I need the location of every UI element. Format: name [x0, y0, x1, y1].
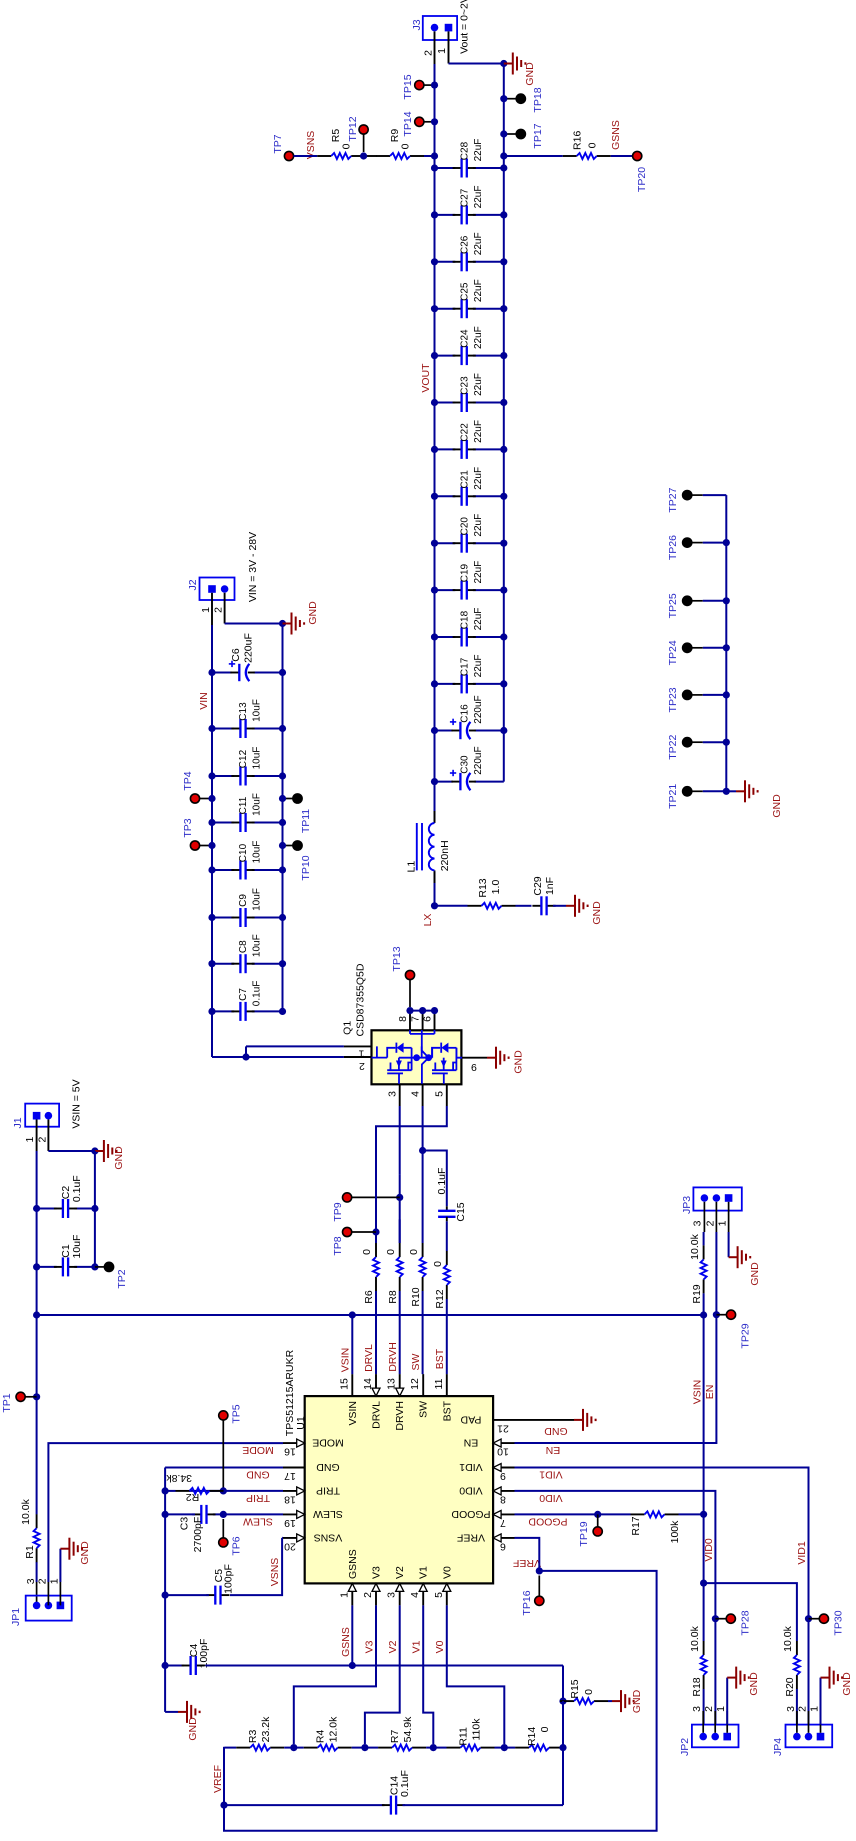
wire V0 net from pin5 [447, 1605, 505, 1744]
node VSIN rail to distribution [33, 1311, 40, 1318]
svg-text:C9: C9 [238, 894, 249, 907]
node TP29 junction [713, 1311, 720, 1318]
svg-text:PAD: PAD [460, 1413, 481, 1425]
resistor R18 (10.0k) [703, 1675, 705, 1689]
resistor R17 (100k) [631, 1513, 645, 1515]
testpoint TP23 [683, 690, 692, 699]
svg-text:VSNS: VSNS [269, 1558, 281, 1587]
node VID pullup branch junction [700, 1580, 707, 1587]
testpoint TP29 [716, 1314, 726, 1316]
wire net VSIN main rail [36, 1562, 38, 1582]
testpoint TP19 [597, 1514, 599, 1526]
svg-text:VIN = 3V - 28V: VIN = 3V - 28V [247, 532, 259, 602]
svg-text:V0: V0 [434, 1640, 446, 1653]
svg-text:L1: L1 [406, 861, 418, 873]
wire V2 net from pin3 [365, 1605, 400, 1744]
wire VOUT rail (net VOUT) [434, 64, 436, 822]
svg-text:3: 3 [25, 1578, 37, 1584]
node TP19 junction [594, 1511, 601, 1518]
wire net BST with C15 bootstrap [423, 1151, 447, 1207]
resistor R9 (0 ohm) [376, 155, 390, 157]
svg-text:5: 5 [433, 1592, 445, 1598]
svg-text:TP11: TP11 [300, 809, 312, 833]
capacitor C17 (22uF) [435, 683, 456, 685]
capacitor C18 (22uF) [435, 636, 456, 638]
svg-text:VSIN: VSIN [347, 1401, 359, 1426]
svg-text:TPS51215ARUKR: TPS51215ARUKR [284, 1349, 296, 1436]
svg-text:1: 1 [717, 1220, 729, 1226]
svg-text:3: 3 [692, 1220, 704, 1226]
testpoint TP30 [809, 1618, 820, 1620]
testpoint TP22 [683, 738, 692, 747]
svg-text:10.0k: 10.0k [689, 1233, 701, 1259]
transistor Q1 internal MOSFETs [372, 1030, 463, 1084]
node PGOOD pullup junction [700, 1511, 707, 1518]
wire GND rail of output capacitor bank [503, 64, 505, 782]
capacitor C11 (10uF) [212, 822, 234, 824]
svg-text:0: 0 [399, 143, 411, 149]
svg-text:PGOOD: PGOOD [528, 1516, 568, 1528]
node VSNS mid junction [364, 155, 377, 157]
resistor R10 (0 ohm) [422, 1277, 424, 1291]
resistor R5 (0 ohm) [317, 155, 331, 157]
testpoint TP11 [293, 794, 302, 803]
capacitor C19 (22uF) [435, 589, 456, 591]
svg-text:TP18: TP18 [532, 87, 544, 112]
svg-text:VOUT: VOUT [420, 363, 432, 393]
wire JP1 pin1 to GND [59, 1549, 61, 1582]
testpoint TP1 [33, 1393, 40, 1400]
svg-text:DRVH: DRVH [394, 1401, 406, 1431]
svg-text:MODE: MODE [312, 1437, 344, 1449]
svg-text:V0: V0 [441, 1566, 453, 1579]
testpoint TP16 [538, 1576, 540, 1597]
resistor R15 (0 ohm) [563, 1700, 565, 1702]
svg-text:SLEW: SLEW [313, 1508, 343, 1520]
svg-text:C27: C27 [460, 188, 471, 207]
svg-text:22uF: 22uF [473, 655, 484, 678]
ground at JP1 [60, 1548, 69, 1550]
svg-text:J1: J1 [12, 1117, 24, 1128]
svg-text:TP15: TP15 [402, 74, 414, 99]
wire VOUT rail lower segment to LX node [434, 872, 436, 906]
wire U1 GND pin17 to rail [165, 1467, 283, 1469]
svg-text:MODE: MODE [242, 1444, 274, 1456]
svg-text:TP28: TP28 [740, 1610, 752, 1635]
wire PAD pin21 to ground [515, 1419, 575, 1421]
wire TP5 to TRIP [222, 1420, 224, 1490]
ground at Q1 pad [487, 1057, 496, 1059]
wire VSIN distribution vertical [37, 1314, 704, 1316]
svg-text:TP22: TP22 [667, 734, 679, 759]
wire Q1 switch-node pins 8,7,6 [409, 1011, 411, 1031]
capacitor C7 (0.1uF) [212, 1010, 234, 1012]
wire net EN (JP3 pin2 to U1 pin10) [515, 1232, 717, 1443]
svg-text:GND: GND [79, 1541, 91, 1565]
svg-text:V1: V1 [411, 1640, 423, 1653]
svg-text:TP12: TP12 [347, 116, 359, 141]
svg-text:DRVL: DRVL [363, 1344, 375, 1372]
svg-text:R4: R4 [315, 1730, 327, 1744]
svg-text:LX: LX [422, 914, 434, 927]
wire VREF loop [515, 1538, 540, 1571]
svg-text:CSD87355Q5D: CSD87355Q5D [355, 963, 367, 1036]
wire R9 to VOUT rail [424, 155, 435, 157]
ground at snubber [566, 905, 575, 907]
ground at JP3 [729, 1256, 738, 1258]
svg-text:VREF: VREF [457, 1531, 485, 1543]
svg-text:0: 0 [583, 1689, 595, 1695]
ground at J3 [504, 63, 513, 65]
wire TP7 to R5 [294, 155, 318, 157]
svg-text:2: 2 [362, 1592, 374, 1598]
capacitor C6 (220uF polarized) [212, 672, 232, 674]
svg-text:JP1: JP1 [10, 1608, 22, 1626]
U1 left edge pins 1-5 GSNS V3 V2 V1 V0 [351, 1583, 353, 1605]
svg-text:C22: C22 [460, 423, 471, 442]
node J1 GND junction [91, 1147, 98, 1154]
svg-text:GSNS: GSNS [347, 1549, 359, 1579]
svg-text:10: 10 [497, 1446, 509, 1458]
svg-text:VID1: VID1 [796, 1541, 808, 1565]
wire net VID0 (U1 pin8 to JP2) [515, 1491, 716, 1725]
svg-text:R8: R8 [387, 1290, 399, 1304]
testpoint TP8 [352, 1231, 376, 1233]
capacitor C24 (22uF) [435, 355, 456, 357]
svg-text:TRIP: TRIP [246, 1492, 270, 1504]
svg-text:R7: R7 [389, 1730, 401, 1744]
resistor R12 (0 ohm) [446, 1285, 448, 1299]
resistor R3 (23.2k) [225, 1747, 237, 1749]
net GSNS sense chain: R16, TP20 [500, 152, 507, 159]
svg-text:SLEW: SLEW [243, 1516, 273, 1528]
capacitor C30 (220uF polarized) [435, 781, 453, 783]
ground at R15 [612, 1700, 621, 1702]
svg-text:Q1: Q1 [341, 1021, 353, 1035]
node TP28 junction [712, 1615, 719, 1622]
svg-text:C29: C29 [532, 876, 544, 895]
capacitor C25 (22uF) [435, 308, 456, 310]
svg-text:V2: V2 [387, 1640, 399, 1653]
capacitor C16 (220uF polarized) [435, 730, 453, 732]
svg-text:18: 18 [284, 1493, 296, 1505]
svg-text:TP26: TP26 [667, 535, 679, 560]
svg-text:1: 1 [48, 1578, 60, 1584]
svg-text:VID1: VID1 [459, 1461, 483, 1473]
wire chain bottom to R15/GSNS [562, 1701, 564, 1805]
svg-text:100pF: 100pF [223, 1564, 235, 1594]
svg-text:R2: R2 [186, 1491, 200, 1503]
svg-text:TP3: TP3 [182, 818, 194, 837]
wire VIN rail corner down to Q1 [212, 1056, 246, 1058]
svg-text:10uF: 10uF [252, 888, 263, 911]
wire JP3 pin1 to GND [728, 1232, 730, 1257]
svg-text:2: 2 [704, 1220, 716, 1226]
svg-text:54.9k: 54.9k [402, 1716, 414, 1742]
svg-text:4: 4 [410, 1091, 422, 1097]
svg-text:R12: R12 [434, 1289, 446, 1308]
svg-text:R15: R15 [569, 1679, 581, 1698]
svg-text:GND: GND [631, 1689, 643, 1713]
testpoint TP20 [633, 151, 642, 160]
svg-text:GND: GND [513, 1050, 525, 1074]
testpoint TP21 [683, 787, 692, 796]
svg-text:TP2: TP2 [116, 1269, 128, 1288]
wire VIN rail (net VIN) [211, 625, 213, 1057]
svg-text:TP8: TP8 [332, 1236, 344, 1255]
svg-text:TP20: TP20 [636, 167, 648, 192]
testpoint TP25 [683, 596, 692, 605]
svg-text:6: 6 [422, 1016, 434, 1022]
wire input GND rail [282, 624, 284, 1012]
svg-text:C23: C23 [460, 376, 471, 395]
capacitor C29 (1nF) [532, 905, 541, 907]
testpoint TP14 [415, 117, 424, 126]
svg-text:BST: BST [434, 1348, 446, 1369]
resistor R4 (12.0k) [294, 1747, 304, 1749]
svg-text:GND: GND [749, 1262, 761, 1286]
node LX junction [431, 902, 438, 909]
svg-text:GND: GND [591, 901, 603, 925]
svg-text:220nH: 220nH [439, 840, 451, 871]
svg-text:C26: C26 [460, 235, 471, 254]
resistor R8 (0 ohm) [399, 1277, 401, 1291]
capacitor C20 (22uF) [435, 542, 456, 544]
wire net DRVH (Q1 pin3 to U1 DRVH) [399, 1106, 401, 1174]
svg-text:22uF: 22uF [473, 514, 484, 537]
resistor R1 (10.0k) [36, 1548, 38, 1562]
resistor R19 (10.0k) [703, 1279, 705, 1293]
testpoint TP9 [352, 1196, 400, 1198]
svg-text:2: 2 [213, 607, 225, 613]
connector J3 (Vout) [423, 16, 457, 40]
svg-text:TP19: TP19 [578, 1521, 590, 1546]
resistor R16 (0 ohm) [563, 155, 577, 157]
svg-text:0.1uF: 0.1uF [436, 1168, 448, 1195]
wire analog GND rail (left) [164, 1468, 166, 1712]
wire SLEW net [229, 1513, 283, 1515]
svg-text:GND: GND [246, 1469, 270, 1481]
svg-text:EN: EN [546, 1444, 561, 1456]
svg-text:TP6: TP6 [231, 1536, 243, 1555]
wire GSNS rail corner to R15 junction [562, 1666, 564, 1702]
svg-text:TP29: TP29 [740, 1323, 752, 1348]
svg-text:TP24: TP24 [667, 640, 679, 665]
wire net VID1 (U1 pin9 to JP4) [515, 1468, 809, 1725]
node V2 tap [361, 1744, 368, 1751]
svg-text:110k: 110k [471, 1718, 483, 1741]
svg-text:V3: V3 [364, 1640, 376, 1653]
svg-text:C12: C12 [238, 749, 249, 768]
svg-text:R16: R16 [572, 131, 584, 150]
svg-text:22uF: 22uF [473, 279, 484, 302]
capacitor C3 (2700pF) [192, 1513, 201, 1515]
svg-text:1: 1 [200, 607, 212, 613]
node VSIN rail end [700, 1311, 707, 1318]
svg-text:R19: R19 [691, 1284, 703, 1303]
node V3 tap [290, 1744, 297, 1751]
svg-text:4: 4 [409, 1592, 421, 1598]
svg-text:VREF: VREF [513, 1557, 541, 1569]
testpoint TP2 [95, 1266, 105, 1268]
testpoint TP24 [683, 643, 692, 652]
svg-text:GND: GND [316, 1461, 340, 1473]
svg-text:C15: C15 [455, 1202, 467, 1221]
svg-text:EN: EN [464, 1437, 479, 1449]
svg-text:0: 0 [408, 1249, 420, 1255]
svg-text:22uF: 22uF [473, 186, 484, 209]
svg-text:TP7: TP7 [272, 134, 284, 153]
wire V1 net from pin4 [423, 1605, 433, 1744]
ground at analog rail [165, 1711, 178, 1713]
wire VIN to Q1 pins 1,2 [242, 1053, 249, 1060]
svg-text:100k: 100k [669, 1520, 681, 1544]
wire net SW (Q1 pin4 to U1 SW) [422, 1106, 424, 1243]
svg-text:GSNS: GSNS [610, 120, 622, 150]
svg-text:5: 5 [434, 1091, 446, 1097]
wire R13 to C29 [516, 905, 532, 907]
testpoint TP15 [415, 81, 424, 90]
svg-text:1nF: 1nF [544, 877, 556, 895]
svg-text:TP5: TP5 [231, 1404, 243, 1423]
svg-text:10uF: 10uF [252, 841, 263, 864]
svg-text:VID0: VID0 [459, 1484, 483, 1496]
svg-text:GND: GND [307, 601, 319, 625]
U1 top edge pins 20 19 18 17 16 [283, 1537, 305, 1539]
svg-text:1: 1 [24, 1137, 36, 1143]
capacitor C2 (0.1uF) [37, 1208, 57, 1210]
svg-text:TP1: TP1 [1, 1393, 13, 1412]
transistor Q1 CSD87355Q5D power block [372, 1030, 462, 1084]
resistor R13 (1.0) [468, 905, 482, 907]
ground at U1 PAD [574, 1419, 583, 1421]
svg-text:C16: C16 [460, 704, 471, 723]
svg-text:1: 1 [809, 1706, 821, 1712]
node J3-GND junction [500, 60, 507, 67]
resistor R14 (0) [504, 1747, 515, 1749]
capacitor C22 (22uF) [435, 448, 456, 450]
svg-text:VREF: VREF [212, 1765, 224, 1793]
testpoint TP5 [219, 1411, 228, 1420]
U1 right edge pins 15 14 13 12 11 [351, 1374, 353, 1396]
resistor R20 (10.0k) [796, 1675, 798, 1689]
svg-text:1: 1 [715, 1706, 727, 1712]
capacitor C5 (100pF) [206, 1594, 215, 1596]
wire U1 VSIN pin to rail [351, 1315, 353, 1374]
connector JP2 [692, 1725, 739, 1748]
svg-text:VID1: VID1 [539, 1469, 563, 1481]
svg-text:3: 3 [785, 1706, 797, 1712]
svg-text:SW: SW [418, 1401, 430, 1418]
svg-text:C25: C25 [460, 282, 471, 301]
svg-text:R6: R6 [363, 1290, 375, 1304]
ground at JP2 [727, 1677, 736, 1679]
svg-text:2: 2 [359, 1060, 365, 1072]
svg-text:VSIN: VSIN [692, 1380, 704, 1405]
svg-text:C19: C19 [460, 563, 471, 582]
svg-text:GND: GND [544, 1425, 568, 1437]
svg-text:1: 1 [436, 48, 448, 54]
svg-text:JP3: JP3 [681, 1196, 693, 1214]
testpoint TP27 [683, 491, 692, 500]
svg-text:0: 0 [385, 1249, 397, 1255]
svg-text:220uF: 220uF [243, 633, 255, 663]
svg-text:VID0: VID0 [703, 1538, 715, 1562]
svg-text:TP17: TP17 [532, 123, 544, 148]
svg-text:VID0: VID0 [539, 1492, 563, 1504]
wire TP21-TP27 ground bus [725, 495, 727, 791]
connector JP4 [786, 1725, 833, 1748]
testpoint TP28 [715, 1618, 726, 1620]
testpoint TP10 [293, 841, 302, 850]
wire JP1 pin2 MODE net [48, 1443, 283, 1582]
svg-text:R5: R5 [330, 129, 342, 143]
svg-text:0.1uF: 0.1uF [252, 981, 263, 1007]
svg-text:C7: C7 [238, 988, 249, 1001]
svg-text:17: 17 [284, 1470, 296, 1482]
resistor R6 (0 ohm) [375, 1277, 377, 1291]
svg-text:19: 19 [284, 1517, 296, 1529]
svg-text:7: 7 [410, 1016, 422, 1022]
svg-text:0: 0 [432, 1261, 444, 1267]
svg-text:R18: R18 [691, 1677, 703, 1696]
svg-text:GSNS: GSNS [340, 1627, 352, 1657]
svg-text:22uF: 22uF [473, 139, 484, 162]
svg-text:2: 2 [797, 1706, 809, 1712]
svg-text:0: 0 [587, 142, 599, 148]
svg-text:TP14: TP14 [402, 111, 414, 136]
svg-text:TP10: TP10 [300, 855, 312, 880]
connector J2 (VIN) [200, 578, 235, 601]
svg-text:JP2: JP2 [679, 1738, 691, 1756]
op-amp U1 TPS51215ARUKR controller [305, 1396, 493, 1583]
svg-text:J2: J2 [187, 579, 199, 590]
svg-text:BST: BST [441, 1400, 453, 1421]
svg-text:SW: SW [410, 1353, 422, 1370]
svg-text:R3: R3 [247, 1730, 259, 1744]
wire J3 pin1 to GND [449, 63, 504, 65]
svg-text:TP13: TP13 [391, 946, 403, 971]
svg-text:8: 8 [397, 1016, 409, 1022]
svg-text:C6: C6 [230, 648, 242, 662]
svg-text:12.0k: 12.0k [328, 1716, 340, 1742]
svg-text:10.0k: 10.0k [782, 1625, 794, 1651]
svg-text:GND: GND [113, 1146, 125, 1170]
svg-text:10.0k: 10.0k [20, 1498, 32, 1524]
svg-text:C30: C30 [460, 755, 471, 774]
svg-text:23.2k: 23.2k [260, 1716, 272, 1742]
svg-text:VSIN: VSIN [340, 1348, 352, 1373]
wire VSIN pullup line (JP3 to JP2) [703, 1232, 705, 1245]
svg-text:R10: R10 [410, 1287, 422, 1306]
svg-text:TP21: TP21 [667, 784, 679, 809]
svg-text:TP30: TP30 [833, 1610, 845, 1635]
capacitor C28 (22uF) [435, 167, 456, 169]
svg-text:22uF: 22uF [473, 232, 484, 255]
svg-text:22uF: 22uF [473, 561, 484, 584]
svg-text:Vout = 0~2V: Vout = 0~2V [459, 0, 471, 54]
capacitor C23 (22uF) [435, 402, 456, 404]
resistor R7 (54.9k) [365, 1747, 378, 1749]
capacitor C12 (10uF) [212, 775, 234, 777]
capacitor C13 (10uF) [212, 728, 234, 730]
svg-text:C10: C10 [238, 843, 249, 862]
capacitor C21 (22uF) [435, 495, 456, 497]
inductor L1 220nH [416, 823, 418, 870]
resistor R2 (34.8k) [176, 1490, 190, 1492]
node V0 tap [501, 1744, 508, 1751]
testpoint TP13 [409, 980, 411, 1007]
